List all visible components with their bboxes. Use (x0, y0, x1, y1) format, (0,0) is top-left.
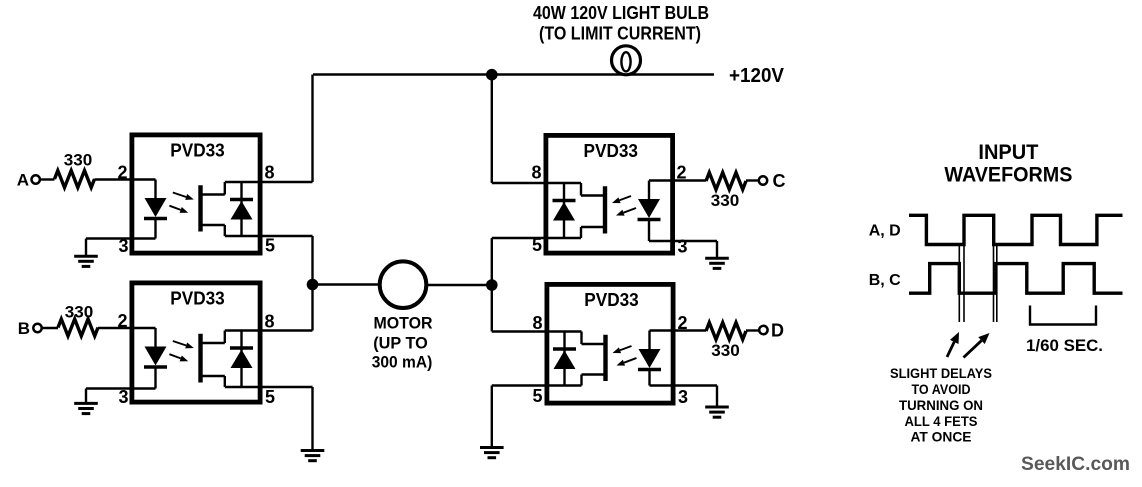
waveform A, D square wave (909, 215, 1123, 244)
body diode of U4 MOSFET (563, 332, 565, 386)
svg-text:WAVEFORMS: WAVEFORMS (944, 164, 1072, 187)
junction node: motor left (A leg) (307, 279, 319, 291)
delay marker lines (slight turn-on delays) (958, 246, 960, 322)
svg-text:2: 2 (677, 163, 687, 183)
optocoupler U1 PVD33 photovoltaic MOSFET driver (box outline) (132, 135, 260, 253)
svg-text:B: B (18, 319, 30, 338)
MOSFET of U1 (output side, pins 8-5) with gate plate (198, 185, 202, 231)
wire: U4 pin8 to motor right node (492, 330, 546, 332)
node C input terminal (759, 176, 767, 184)
svg-text:2: 2 (117, 163, 127, 183)
1/60 second period bracket (1030, 306, 1096, 325)
svg-text:2: 2 (678, 313, 688, 333)
optocoupler U2 PVD33 photovoltaic MOSFET driver (box outline) (132, 283, 260, 402)
wire: U2 pin5 to ground (260, 386, 313, 388)
svg-text:PVD33: PVD33 (584, 289, 639, 310)
svg-text:PVD33: PVD33 (584, 140, 639, 161)
svg-text:8: 8 (265, 312, 275, 332)
wire: U1 pin3 to ground (86, 237, 131, 239)
ground symbol (U1 pin 3) (74, 255, 98, 258)
wire: U4 pin3 to ground (674, 384, 717, 386)
svg-text:C: C (773, 171, 786, 191)
svg-text:A, D: A, D (869, 223, 901, 240)
svg-text:D: D (771, 321, 784, 341)
svg-text:B, C: B, C (869, 272, 901, 289)
resistor R3 330 ohm (706, 173, 746, 190)
svg-text:5: 5 (265, 236, 275, 256)
svg-text:ALL 4 FETS: ALL 4 FETS (905, 413, 978, 429)
ground symbol (U2 pin 5) (301, 449, 325, 452)
svg-text:1/60 SEC.: 1/60 SEC. (1026, 336, 1103, 355)
wire: A to R1 (40, 178, 55, 180)
junction dot on supply rail (486, 69, 498, 81)
svg-text:300 mA): 300 mA) (372, 354, 433, 372)
LED of U4 (input side, pins 2-3) (650, 329, 676, 331)
wire: R1 to U1 pin2 (95, 178, 132, 180)
wire: R4 to D terminal (746, 329, 759, 331)
wire: U1 pin8 riser to +120V rail (311, 75, 313, 183)
light emission arrows of U3 (620, 196, 631, 200)
light emission arrows of U4 (620, 346, 631, 350)
optocoupler U3 PVD33 photovoltaic MOSFET driver (box outline) (546, 135, 673, 253)
wire: U3 pin8 riser to +120V rail (491, 75, 493, 184)
svg-text:PVD33: PVD33 (170, 140, 225, 161)
svg-text:5: 5 (532, 235, 542, 255)
svg-text:2: 2 (117, 311, 127, 331)
svg-text:SeekIC.com: SeekIC.com (1021, 453, 1130, 475)
body diode of U1 MOSFET (240, 182, 242, 236)
svg-text:AT ONCE: AT ONCE (911, 429, 972, 445)
MOSFET of U3 (output side, pins 8-5) with gate plate (603, 186, 607, 233)
resistor R1 330 ohm (55, 171, 95, 188)
MOSFET of U4 (output side, pins 8-5) with gate plate (603, 335, 607, 381)
svg-text:8: 8 (531, 163, 541, 183)
light bulb lamp symbol (612, 46, 641, 75)
svg-text:A: A (17, 171, 29, 190)
svg-text:+120V: +120V (729, 65, 785, 87)
wire: U4 pin5 to ground (492, 384, 546, 386)
wire: B to R2 (42, 327, 58, 329)
wire: R2 to U2 pin2 (98, 327, 131, 329)
optocoupler U4 PVD33 photovoltaic MOSFET driver (box outline) (547, 284, 673, 403)
svg-text:8: 8 (532, 313, 542, 333)
MOSFET of U2 (output side, pins 8-5) with gate plate (198, 334, 202, 383)
svg-text:5: 5 (265, 387, 275, 407)
svg-text:MOTOR: MOTOR (374, 315, 433, 333)
svg-text:330: 330 (711, 341, 740, 360)
svg-text:(TO LIMIT CURRENT): (TO LIMIT CURRENT) (539, 24, 701, 44)
svg-text:PVD33: PVD33 (170, 288, 225, 309)
resistor R2 330 ohm (58, 319, 98, 336)
wire: U3 pin2 to R3 (673, 179, 706, 181)
node D input terminal (759, 326, 767, 334)
wire: motor right lead (427, 284, 492, 286)
svg-text:8: 8 (265, 163, 275, 183)
wire: U1 pin5 to motor left node (260, 235, 313, 237)
light emission arrows of U2 (173, 341, 186, 345)
ground symbol (U4 pin 3) (705, 406, 729, 409)
LED of U3 (input side, pins 2-3) (649, 179, 675, 181)
svg-text:330: 330 (64, 151, 93, 170)
svg-text:(UP TO: (UP TO (373, 335, 428, 353)
ground symbol (U3 pin 3) (705, 257, 729, 260)
resistor R4 330 ohm (706, 323, 746, 340)
junction node: motor right (B leg) (486, 279, 498, 291)
wire: +120V supply rail (313, 73, 714, 75)
body diode of U2 MOSFET (240, 331, 242, 388)
LED of U1 (input side, pins 2-3) (130, 178, 156, 180)
waveform B, C square wave (909, 264, 1123, 294)
wire: U4 pin2 to R4 (674, 329, 706, 331)
wire: U2 pin3 to ground (86, 387, 131, 389)
svg-text:3: 3 (678, 387, 688, 407)
svg-text:3: 3 (118, 387, 128, 407)
wire: U2 pin8 to motor left node (260, 329, 313, 331)
svg-text:330: 330 (711, 191, 740, 210)
svg-text:3: 3 (118, 236, 128, 256)
ground symbol (U4 pin 5) (480, 446, 504, 449)
body diode of U3 MOSFET (563, 183, 565, 238)
wire: motor left lead (313, 283, 381, 285)
svg-text:TO AVOID: TO AVOID (912, 381, 971, 397)
wire: U3 pin5 to motor right node (492, 237, 545, 239)
motor M1 (380, 261, 427, 308)
wire: R3 to C terminal (746, 179, 759, 181)
svg-text:40W 120V LIGHT BULB: 40W 120V LIGHT BULB (533, 3, 709, 23)
light emission arrows of U1 (173, 193, 186, 197)
wire: U3 pin3 to ground (673, 240, 717, 242)
svg-text:SLIGHT DELAYS: SLIGHT DELAYS (890, 365, 992, 381)
LED of U2 (input side, pins 2-3) (130, 327, 156, 329)
ground symbol (U2 pin 3) (74, 402, 98, 405)
svg-text:3: 3 (678, 237, 688, 257)
svg-text:5: 5 (532, 386, 542, 406)
annotation arrows to delay markers (947, 342, 954, 357)
svg-text:INPUT: INPUT (978, 141, 1038, 164)
svg-text:TURNING ON: TURNING ON (899, 397, 983, 413)
svg-text:330: 330 (65, 303, 94, 322)
